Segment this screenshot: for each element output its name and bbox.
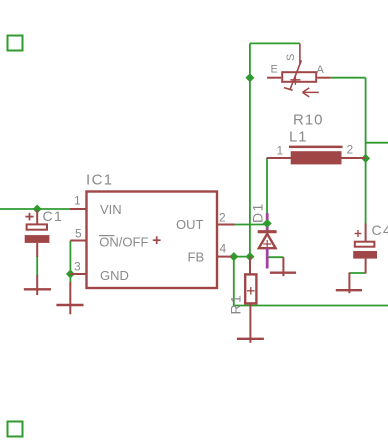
inductor L1 pin1 lead xyxy=(267,157,291,159)
svg-text:FB: FB xyxy=(188,250,205,265)
svg-text:3: 3 xyxy=(74,260,81,274)
junction dot FB right xyxy=(246,252,255,261)
svg-text:4: 4 xyxy=(220,242,227,256)
trimmer R10 body xyxy=(282,72,316,82)
inductor L1 pin2 lead xyxy=(342,157,366,159)
wire OUT net xyxy=(234,224,268,226)
svg-text:C1: C1 xyxy=(43,208,64,224)
resistor R1 bottom lead xyxy=(249,305,251,343)
IC1 pin 2 OUT lead xyxy=(218,224,235,226)
svg-text:IC1: IC1 xyxy=(86,172,114,189)
IC1 pin 5 lead xyxy=(70,240,85,242)
svg-text:R1: R1 xyxy=(227,294,243,315)
svg-text:5: 5 xyxy=(75,227,82,241)
diode D1 cathode bar xyxy=(258,230,277,233)
trimmer R10 S pin lead xyxy=(299,43,301,64)
svg-text:1: 1 xyxy=(277,144,284,158)
origin cross IC1 xyxy=(153,236,161,244)
ground IC1 GND net xyxy=(56,282,83,314)
wire ON/OFF to GND pin xyxy=(69,241,71,275)
IC1 pin 4 FB lead xyxy=(218,256,232,258)
capacitor C1 bottom plate xyxy=(25,235,50,243)
svg-text:A: A xyxy=(317,64,325,76)
origin cross D1 xyxy=(263,240,271,248)
svg-text:1: 1 xyxy=(74,194,81,208)
ground C1 xyxy=(24,275,51,295)
wire pin3 down xyxy=(69,274,71,283)
junction dot trimmer E xyxy=(245,73,254,82)
svg-text:D1: D1 xyxy=(250,202,266,223)
junction dot C1/VIN xyxy=(33,205,42,214)
wire L1 pin1 down to D1 xyxy=(266,158,268,214)
inductor L1 body xyxy=(291,151,342,164)
capacitor C1 bottom lead xyxy=(36,243,38,257)
wire C1 bottom to ground xyxy=(36,256,38,275)
wire trimmer A to rail xyxy=(331,77,366,79)
diode D1 cathode lead highlighted xyxy=(266,213,269,230)
resistor R1 top lead xyxy=(249,257,251,274)
svg-text:R10: R10 xyxy=(293,112,324,129)
capacitor C4 plus mark xyxy=(355,230,362,237)
diode D1 triangle xyxy=(259,234,276,248)
origin cross R1 xyxy=(247,287,255,295)
wire trimmer S loop vertical xyxy=(249,43,251,77)
wire FB down left xyxy=(233,257,235,306)
wire FB rail from trimmer xyxy=(249,78,251,257)
wire right rail down xyxy=(365,78,367,225)
svg-text:GND: GND xyxy=(100,268,129,283)
svg-text:E: E xyxy=(271,63,278,75)
capacitor C1 plus mark xyxy=(25,213,33,221)
capacitor C4 top plate xyxy=(355,242,375,247)
IC1 pin 3 lead xyxy=(70,273,85,275)
capacitor C4 bottom plate xyxy=(353,251,377,259)
inductor L1 top bar xyxy=(289,146,343,149)
trimmer R10 adjust arrow xyxy=(303,88,319,97)
svg-text:2: 2 xyxy=(347,143,354,157)
wire D1 anode branch xyxy=(267,256,283,258)
node marker top-left xyxy=(8,36,23,51)
junction dot FB left xyxy=(229,252,238,261)
trimmer R10 wiper diagonal xyxy=(290,60,301,89)
origin cross R10 xyxy=(290,75,300,85)
diode D1 anode lead highlighted xyxy=(266,248,269,268)
trimmer R10 E pin lead xyxy=(267,77,281,79)
ground C4 xyxy=(336,273,362,294)
trimmer R10 A pin lead xyxy=(317,77,330,79)
svg-text:C4: C4 xyxy=(372,222,388,238)
capacitor C1 top plate xyxy=(27,224,47,229)
wire trimmer S loop horizontal xyxy=(250,42,300,44)
wire bottom rail xyxy=(234,305,388,307)
ground D1 net xyxy=(270,257,296,276)
junction dot L1 pin2 xyxy=(361,154,370,163)
svg-text:VIN: VIN xyxy=(100,202,122,217)
capacitor C4 bottom lead xyxy=(365,259,367,274)
wire VIN net left xyxy=(0,208,71,210)
ground R1 xyxy=(237,338,264,340)
svg-text:L1: L1 xyxy=(289,129,307,146)
capacitor C1 top lead xyxy=(36,210,38,228)
junction dot OUT/D1/L1 xyxy=(263,219,272,228)
node marker bottom-left xyxy=(8,422,23,437)
junction dot pin3 xyxy=(66,270,75,279)
op-amp box IC1 xyxy=(87,192,218,289)
wire C4 ground jog xyxy=(349,272,365,274)
IC1 pin 1 lead xyxy=(70,208,86,210)
trimmer R10 wiper tick xyxy=(284,88,293,91)
wire stub to right edge xyxy=(366,142,388,144)
wire FB pin xyxy=(231,256,250,258)
svg-text:S: S xyxy=(285,54,297,61)
svg-text:OUT: OUT xyxy=(176,217,204,232)
resistor R1 body xyxy=(245,274,256,303)
capacitor C4 top lead xyxy=(365,224,367,246)
svg-text:2: 2 xyxy=(219,211,226,225)
svg-text:ON/OFF: ON/OFF xyxy=(99,235,148,250)
